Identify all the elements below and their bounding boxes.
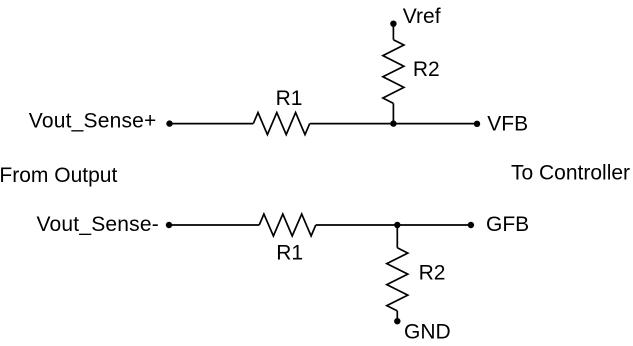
resistor R2 (bottom)	[387, 248, 408, 311]
wire Vout_Sense+ dot to R1	[170, 123, 254, 125]
svg-text:R2: R2	[419, 262, 446, 285]
wire R1 to VFB dot	[310, 123, 477, 125]
svg-text:VFB: VFB	[487, 113, 528, 136]
node Vref terminal dot	[390, 21, 396, 27]
svg-text:R1: R1	[276, 241, 303, 264]
wire bottom junction to R2 top	[396, 225, 398, 248]
node Vout_Sense- terminal dot	[166, 222, 172, 228]
wire Vout_Sense- dot to R1	[169, 224, 259, 226]
svg-text:Vref: Vref	[403, 5, 441, 28]
svg-text:Vout_Sense+: Vout_Sense+	[29, 109, 157, 132]
resistor R2 (top)	[383, 40, 404, 104]
wire R2 bottom to GND dot	[396, 311, 398, 321]
node GND terminal dot	[394, 318, 400, 324]
svg-text:To Controller: To Controller	[511, 161, 630, 184]
wire R2 bottom to top junction	[392, 103, 394, 123]
node Vout_Sense+ terminal dot	[166, 120, 172, 126]
svg-text:GFB: GFB	[486, 213, 529, 236]
node GFB terminal dot	[468, 222, 474, 228]
wire R1 to GFB dot	[316, 224, 471, 226]
resistor R1 (bottom)	[259, 214, 316, 236]
wire Vref dot to R2 top	[392, 24, 394, 40]
svg-text:R1: R1	[276, 87, 303, 110]
svg-text:From Output: From Output	[0, 164, 117, 187]
junction node (top divider tap)	[390, 120, 396, 126]
svg-text:R2: R2	[413, 58, 440, 81]
svg-text:GND: GND	[404, 321, 451, 344]
resistor R1 (top)	[253, 113, 309, 135]
junction node (bottom divider tap)	[394, 222, 400, 228]
svg-text:Vout_Sense-: Vout_Sense-	[37, 213, 159, 236]
node VFB terminal dot	[474, 121, 480, 127]
